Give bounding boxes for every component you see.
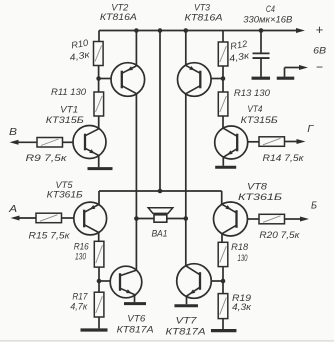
svg-text:R20 7,5к: R20 7,5к — [259, 230, 300, 240]
svg-text:330мк×16В: 330мк×16В — [243, 15, 292, 25]
svg-text:R16: R16 — [74, 242, 90, 252]
svg-text:130: 130 — [75, 252, 87, 262]
svg-text:А: А — [8, 203, 17, 215]
svg-text:КТ315Б: КТ315Б — [241, 115, 278, 126]
svg-text:R13 130: R13 130 — [234, 88, 271, 98]
svg-text:R9 7,5к: R9 7,5к — [26, 153, 68, 163]
svg-text:130: 130 — [238, 253, 249, 263]
svg-text:КТ817А: КТ817А — [166, 327, 206, 338]
svg-text:R18: R18 — [231, 242, 249, 252]
svg-text:КТ315Б: КТ315Б — [46, 115, 84, 126]
svg-text:КТ816А: КТ816А — [100, 12, 137, 23]
svg-text:VT6: VT6 — [127, 314, 146, 325]
svg-text:VT4: VT4 — [247, 104, 262, 115]
svg-text:КТ816А: КТ816А — [185, 13, 223, 24]
svg-text:VT8: VT8 — [247, 182, 268, 193]
svg-text:−: − — [316, 60, 323, 74]
svg-text:+: + — [316, 22, 324, 37]
svg-text:В: В — [9, 126, 17, 138]
svg-text:КТ817А: КТ817А — [117, 325, 154, 336]
svg-text:КТ361Б: КТ361Б — [238, 192, 282, 203]
svg-text:Б: Б — [311, 200, 317, 212]
svg-text:4,7к: 4,7к — [70, 301, 88, 311]
svg-text:VT7: VT7 — [176, 316, 198, 327]
svg-text:ВА1: ВА1 — [152, 229, 168, 239]
svg-text:6В: 6В — [313, 46, 327, 57]
svg-text:4,3к: 4,3к — [232, 302, 252, 312]
svg-text:R11 130: R11 130 — [51, 87, 87, 97]
svg-text:R17: R17 — [72, 291, 88, 301]
svg-text:VT1: VT1 — [60, 105, 78, 116]
svg-text:C4: C4 — [266, 4, 275, 14]
svg-text:R15 7,5к: R15 7,5к — [29, 231, 71, 241]
svg-text:КТ361Б: КТ361Б — [47, 190, 83, 201]
svg-text:R14 7,5к: R14 7,5к — [263, 153, 305, 163]
